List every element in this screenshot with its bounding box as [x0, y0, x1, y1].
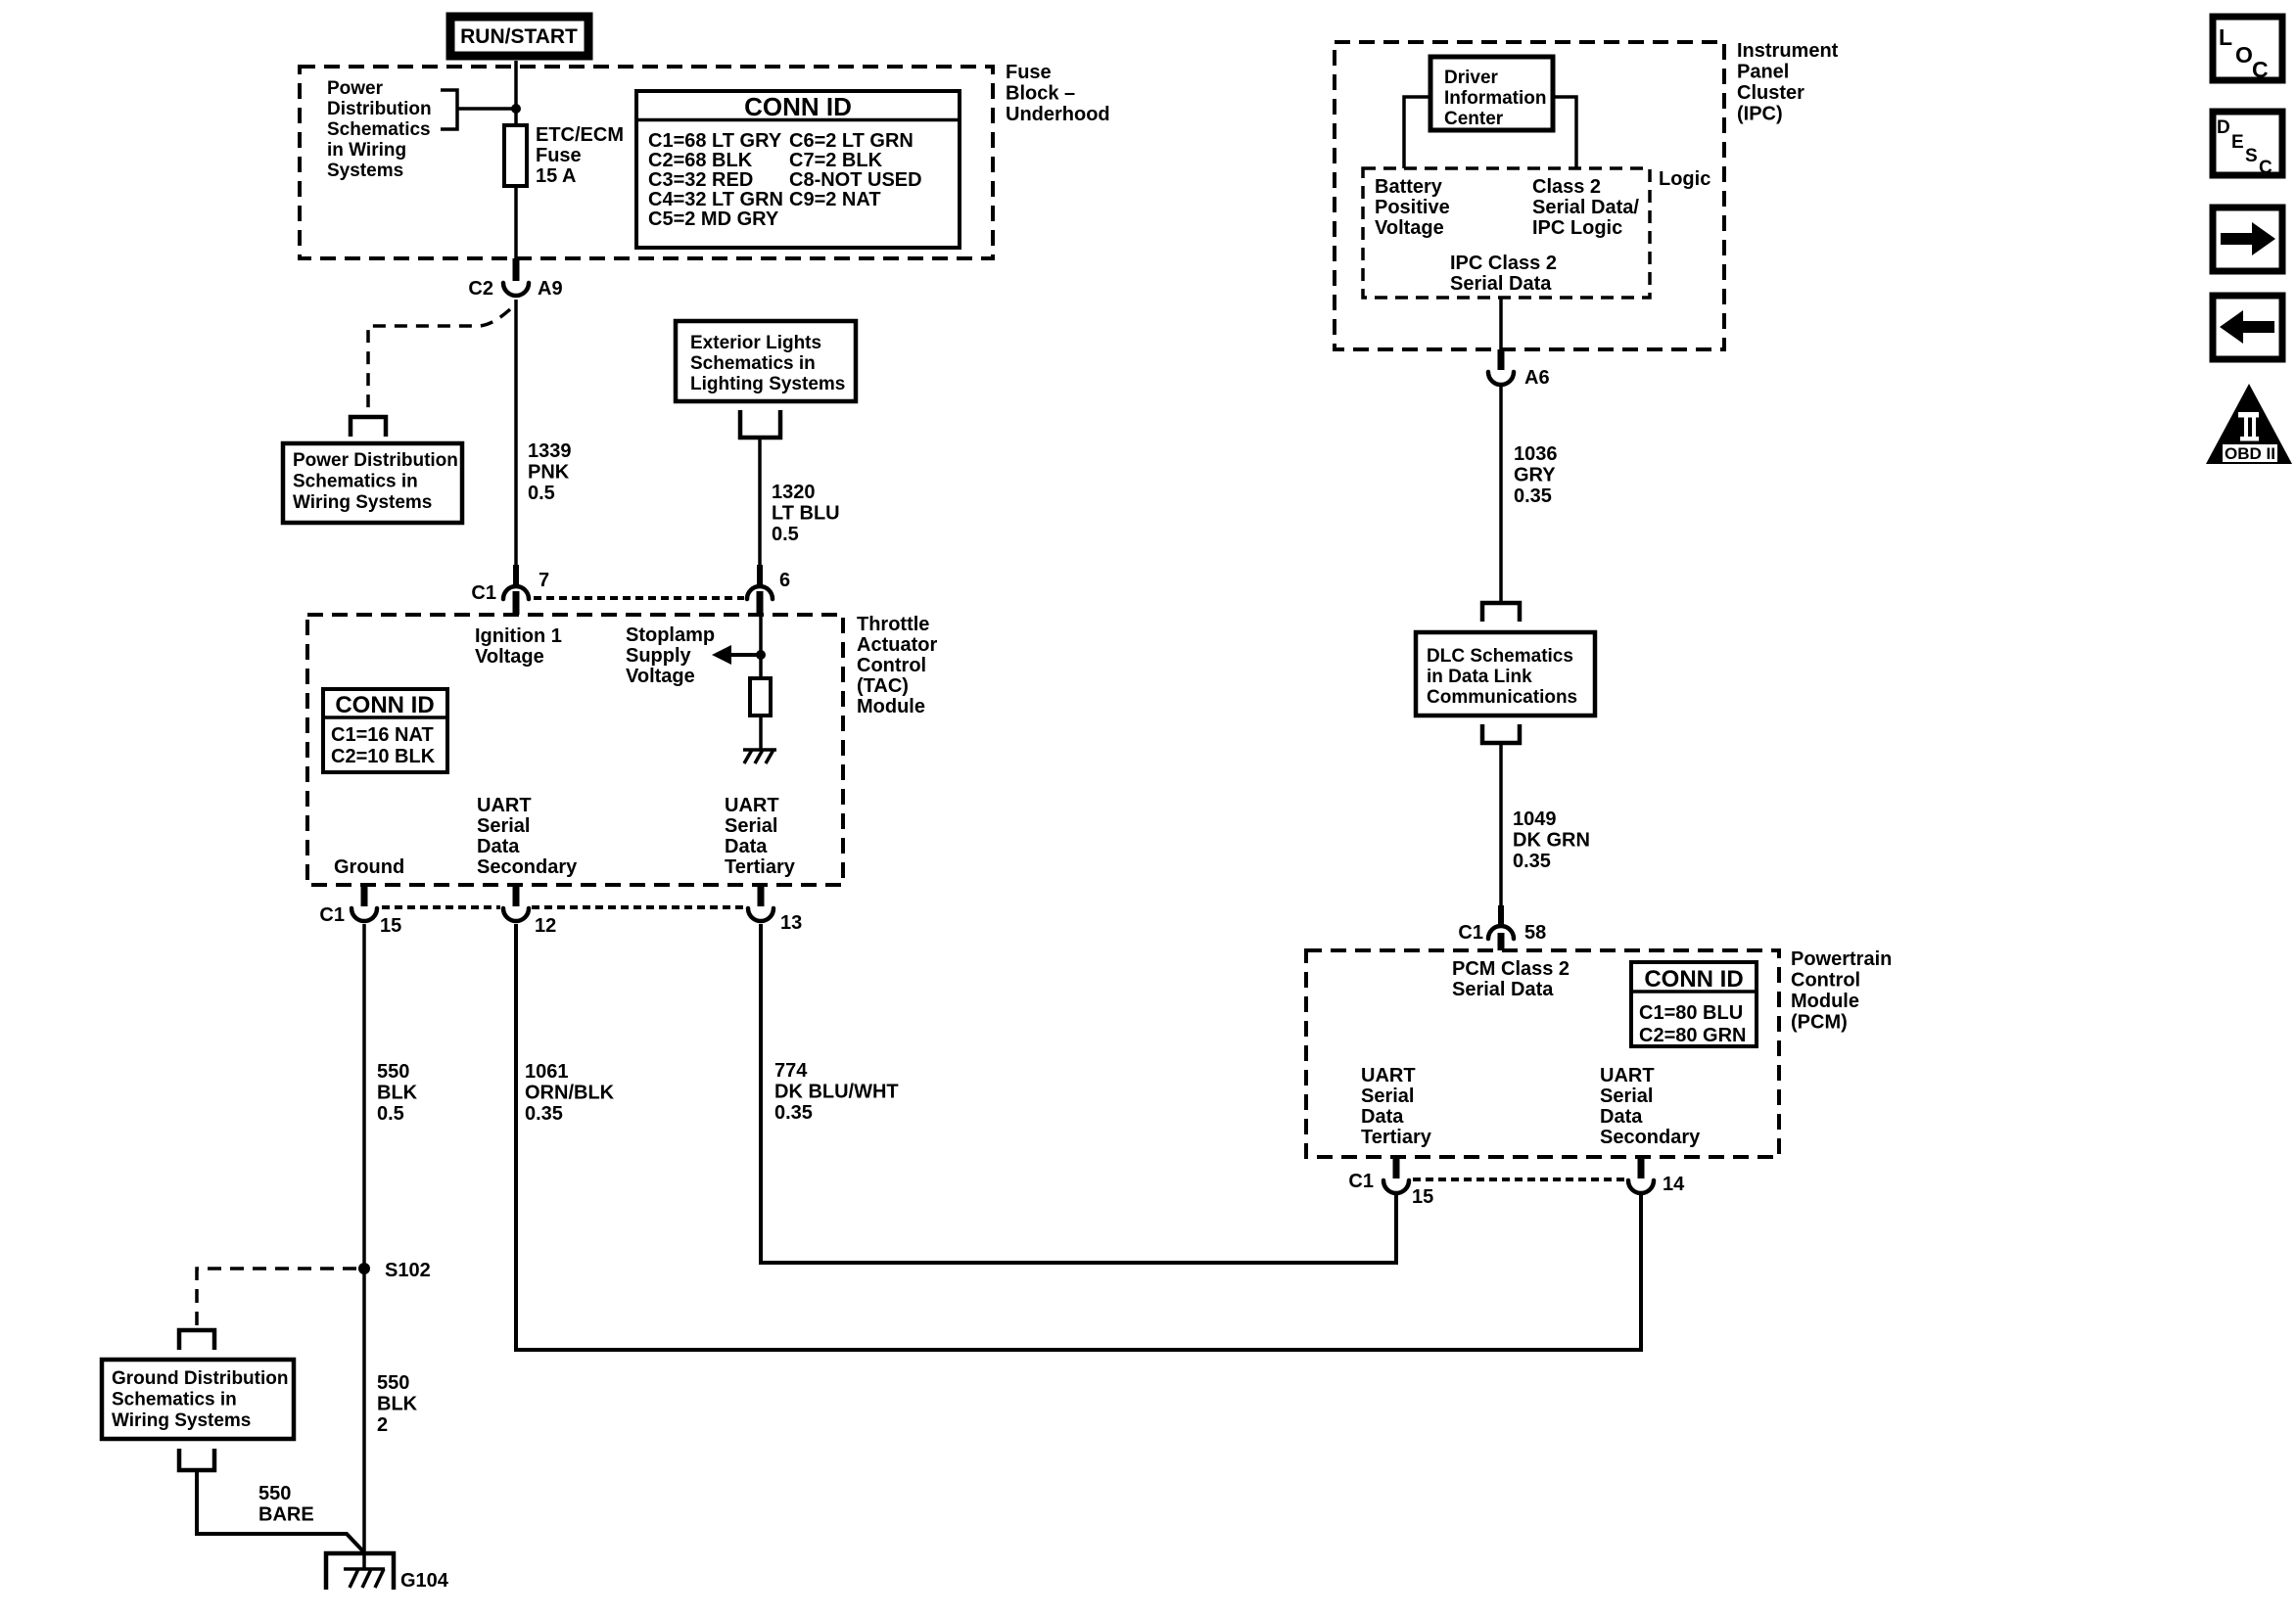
resistor (TAC pull-up)	[750, 678, 771, 716]
wire DIC left to logic	[1404, 97, 1430, 168]
connector boundary dashes (TAC top)	[534, 596, 744, 600]
svg-text:15: 15	[1412, 1186, 1433, 1208]
svg-text:7: 7	[539, 570, 549, 591]
svg-text:C2: C2	[468, 278, 493, 300]
wire resistor to ground	[759, 716, 763, 750]
icon DESC box	[2213, 112, 2282, 178]
power feed RUN/START	[450, 17, 588, 56]
off-page staple (DLC bottom)	[1482, 724, 1520, 743]
wire 1320 LT BLU	[758, 438, 762, 565]
svg-text:C1: C1	[1458, 922, 1483, 944]
fuse ETC/ECM 15 A	[504, 125, 527, 186]
box Driver Information Center	[1430, 57, 1553, 130]
wire 774 DK BLU/WHT run (TAC 13 to PCM 15)	[761, 924, 1396, 1263]
wire 1049 DK GRN	[1499, 743, 1503, 905]
CONN ID table (PCM)	[1631, 962, 1757, 1046]
svg-text:BatteryPositiveVoltage: BatteryPositiveVoltage	[1375, 176, 1450, 239]
off-page staple (DLC top)	[1482, 603, 1520, 622]
wire DIC right to logic	[1553, 97, 1576, 168]
box Power Distribution Schematics in Wiring Systems	[283, 443, 462, 523]
wire 1036 GRY	[1499, 387, 1503, 603]
svg-text:G104: G104	[400, 1570, 449, 1592]
dashed branch from C2 to power distribution reference	[368, 309, 510, 415]
fuse block underhood dashed box	[300, 67, 993, 258]
svg-text:C1: C1	[1348, 1171, 1374, 1192]
icon arrow left box	[2213, 296, 2282, 359]
svg-text:C1=16 NATC2=10 BLK: C1=16 NATC2=10 BLK	[331, 724, 436, 767]
chassis ground (TAC internal)	[743, 750, 776, 763]
svg-text:CONN ID: CONN ID	[335, 692, 434, 718]
svg-text:A9: A9	[538, 278, 563, 300]
connector pin 12	[503, 885, 556, 937]
connector pin 13	[748, 885, 802, 934]
Logic dashed box	[1363, 168, 1650, 298]
icon arrow right box	[2213, 208, 2282, 271]
svg-text:IPC Class 2Serial Data: IPC Class 2Serial Data	[1450, 253, 1557, 295]
svg-text:CONN ID: CONN ID	[1644, 966, 1743, 993]
box Exterior Lights Schematics in Lighting Systems	[676, 321, 856, 401]
connector C2 A9	[468, 258, 562, 300]
TAC module dashed box	[307, 615, 843, 885]
connector C1 pin 15 (PCM)	[1348, 1157, 1433, 1208]
CONN ID table (fuse block)	[636, 91, 960, 248]
wire RUN/START to fuse	[514, 61, 518, 125]
svg-text:CONN ID: CONN ID	[744, 92, 852, 121]
ground G104	[326, 1553, 449, 1592]
icon OBD II triangle	[2206, 384, 2292, 464]
box DLC Schematics in Data Link Communications	[1416, 632, 1595, 716]
svg-text:A6: A6	[1524, 367, 1550, 389]
svg-text:C: C	[2259, 158, 2273, 178]
box Ground Distribution Schematics in Wiring Systems	[102, 1360, 294, 1439]
dashed branch S102 to ground distribution reference	[197, 1269, 356, 1326]
connector A6	[1488, 349, 1550, 389]
svg-text:O: O	[2235, 42, 2253, 68]
svg-text:C1: C1	[471, 582, 496, 604]
bracket to power distribution label	[441, 90, 512, 129]
connector pin 6	[747, 570, 790, 615]
svg-text:L: L	[2219, 24, 2232, 50]
svg-text:12: 12	[535, 915, 556, 937]
svg-text:14: 14	[1663, 1174, 1685, 1195]
svg-text:OBD II: OBD II	[2225, 444, 2275, 463]
svg-text:Ground: Ground	[334, 856, 404, 878]
svg-text:C1=80 BLUC2=80 GRN: C1=80 BLUC2=80 GRN	[1639, 1002, 1747, 1046]
off-page staple (exterior lights)	[740, 410, 780, 438]
connector C1 pin 58 (PCM)	[1458, 922, 1546, 950]
stoplamp supply arrow	[712, 645, 761, 665]
svg-text:15: 15	[380, 915, 401, 937]
connector boundary dashes (TAC bottom)	[382, 905, 500, 909]
connector boundary dashes (PCM bottom)	[1413, 1178, 1626, 1181]
connector C1 pin 15 (TAC ground)	[319, 885, 401, 937]
PCM dashed box	[1306, 950, 1779, 1157]
svg-text:C: C	[2252, 57, 2269, 82]
connector pin 14 (PCM)	[1628, 1157, 1685, 1195]
off-page staple (power distribution)	[351, 417, 386, 437]
svg-text:D: D	[2217, 117, 2230, 138]
icon LOC box	[2213, 17, 2282, 82]
svg-text:S102: S102	[385, 1260, 431, 1281]
svg-text:13: 13	[780, 912, 802, 934]
wire 550 BLK ground run	[362, 924, 366, 1569]
wire inside TAC	[759, 615, 763, 678]
junction dot (stoplamp)	[756, 650, 766, 660]
svg-text:S: S	[2245, 146, 2258, 166]
svg-text:C1: C1	[319, 904, 345, 926]
CONN ID table (TAC)	[323, 689, 447, 772]
svg-text:E: E	[2231, 132, 2244, 153]
splice S102	[358, 1263, 370, 1274]
svg-text:1036GRY0.35: 1036GRY0.35	[1514, 443, 1558, 507]
off-page staple (ground distribution bottom)	[179, 1449, 214, 1470]
svg-text:PCM Class 2Serial Data: PCM Class 2Serial Data	[1452, 958, 1570, 1000]
wire 550 BARE	[197, 1470, 364, 1552]
junction dot	[511, 104, 521, 114]
wire logic to IPC edge	[1499, 298, 1503, 349]
off-page staple (ground distribution top)	[179, 1330, 214, 1350]
IPC dashed box	[1335, 42, 1724, 349]
svg-text:RUN/START: RUN/START	[460, 25, 578, 48]
wire fuse to box edge	[514, 186, 518, 258]
svg-text:58: 58	[1524, 922, 1546, 944]
wire 1339 PNK	[514, 300, 518, 565]
svg-text:Logic: Logic	[1659, 168, 1710, 190]
svg-text:6: 6	[779, 570, 790, 591]
connector C1 pin 7	[471, 570, 549, 615]
wire 1061 ORN/BLK run (TAC 12 to PCM 14)	[516, 924, 1641, 1350]
